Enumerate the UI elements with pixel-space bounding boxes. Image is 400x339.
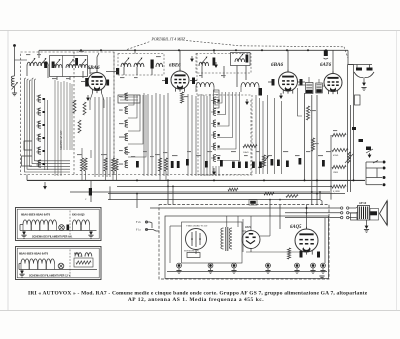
resistor R18 on bus [228, 188, 238, 191]
svg-text:C: C [85, 199, 87, 201]
tube V7 6AQ5 [295, 229, 318, 252]
capacitor C9 at V2 right [192, 78, 195, 85]
wire bus 2 [117, 185, 330, 187]
extra capacitors mid band [136, 161, 139, 168]
wire terminal drops [365, 162, 367, 185]
ground mid arrow [213, 168, 215, 174]
resistor R5 [158, 158, 161, 171]
field coil box speaker [351, 213, 358, 220]
capacitor C19 [232, 162, 235, 169]
filament wiring 12V [19, 269, 97, 271]
resistor R17 on line [286, 195, 298, 198]
pilot lamp LP2 [58, 263, 64, 269]
wire bundle V1 to oscillator [94, 97, 96, 177]
dashed divider IF1 [196, 54, 198, 96]
small rect below switch [355, 95, 361, 105]
capacitor C16 phono [367, 68, 373, 71]
wire tone network left rail [330, 135, 332, 186]
wire rail drop right to switch [347, 50, 349, 64]
resistor R13 tone [332, 148, 348, 151]
svg-text:6X5: 6X5 [245, 225, 251, 229]
svg-text:6AT6: 6AT6 [320, 63, 332, 68]
dashed divider filament box 12V [69, 250, 71, 277]
pilot lamp LP1 [59, 225, 65, 231]
page border top [0, 30, 400, 32]
wire bundle under V1 [54, 80, 56, 176]
wire oscillator column tails [212, 166, 214, 176]
capacitor C3 [52, 62, 55, 69]
capacitor C8 at V2 [165, 78, 168, 85]
svg-text:6BA6: 6BA6 [271, 62, 284, 68]
potentiometer R20 tone [348, 152, 351, 163]
page border left [7, 31, 9, 311]
power transformer T1 [225, 227, 227, 251]
tube V2 6BE6 [171, 71, 189, 89]
wire vertical links to power box [109, 186, 111, 199]
resistor R19 on bus [264, 192, 274, 195]
IF1 winding rect [214, 90, 220, 108]
capacitor C15 phono [356, 68, 362, 71]
resistor R4b [115, 159, 118, 171]
wire speaker line 1 [108, 199, 320, 201]
ground symbols filament 6V [23, 231, 25, 235]
wire switch feed [348, 64, 373, 66]
dropping resistor box 12V [74, 258, 93, 267]
capacitor C24 [286, 161, 289, 168]
oscillator unit dashed box [198, 95, 252, 175]
resistor R3 [104, 158, 107, 171]
svg-text:6X5 6AQ5: 6X5 6AQ5 [72, 213, 85, 217]
resistor R1 [80, 158, 83, 171]
svg-text:1MΩ: 1MΩ [333, 172, 338, 174]
capacitor C30 output [317, 252, 320, 258]
padder box [118, 95, 140, 103]
IF1 capacitor C10 [213, 58, 216, 66]
power unit box GA7 dashed [159, 205, 329, 279]
resistor R22 in AF box [78, 120, 81, 133]
IF3 winding A [306, 83, 314, 94]
wire transformer top link [226, 216, 228, 227]
ground arrow under IF1 [246, 99, 248, 104]
wire bus 3 [70, 191, 330, 193]
tube V3 6BA6 [279, 72, 298, 91]
tube V1 6BA6 [88, 73, 106, 91]
ground below antenna [14, 92, 16, 93]
electrolytic capacitors row [177, 263, 182, 268]
staircase wiring IF stage [217, 92, 222, 103]
switch coil column L22-L27 [213, 97, 216, 104]
resistor R10 [306, 106, 309, 120]
capacitor C27 tone [359, 139, 364, 142]
coil L6 with trimmer [79, 64, 89, 68]
svg-text:6BA6: 6BA6 [88, 65, 101, 71]
wire AF box bottom link [26, 175, 28, 181]
ground symbols filament 12V [21, 270, 23, 274]
resistor R21 in AF box [73, 100, 76, 113]
svg-text:F 2a: F 2a [136, 221, 141, 224]
tube V6 6X5 rectifier [242, 231, 260, 249]
capacitor C17 [171, 161, 174, 168]
filament heater coils 6V [23, 220, 31, 225]
dashed divider inside AF box [73, 52, 75, 175]
wire speaker line 3 [285, 212, 341, 214]
oscillator transformer box [118, 54, 164, 76]
fuse battery input [187, 253, 200, 258]
capacitor C13 at V3 right [300, 79, 303, 86]
value labels input stage [26, 54, 30, 55]
wire speaker line 2 [150, 207, 341, 209]
svg-text:50kΩ: 50kΩ [243, 151, 249, 154]
capacitor C5 at V1 grid [85, 78, 88, 87]
IF1 secondary coil [235, 59, 245, 62]
output transformer T2 speaker [358, 206, 370, 221]
value labels IF1 [199, 75, 203, 76]
wire V3 top cap to rail [287, 50, 289, 72]
ground arrow below rail mid [215, 62, 217, 67]
plug contacts speaker connector [341, 207, 343, 209]
capacitor C18 [177, 161, 180, 168]
IF1 primary coil [199, 62, 209, 66]
wires V1 pins fanout [90, 93, 93, 110]
oscillator coil L8 [134, 63, 144, 67]
capacitor C7 padder [151, 60, 154, 69]
dashed divider filament box 6V [69, 211, 71, 238]
wire V4 top cap [332, 50, 334, 73]
fuse on supply line [249, 200, 257, 206]
capacitor C20 [238, 162, 241, 169]
capacitor C26 on drop [90, 180, 92, 202]
switch S2 fono [366, 147, 371, 151]
svg-text:6BA6 6BE6 6BA6 6AT6: 6BA6 6BE6 6BA6 6AT6 [21, 213, 51, 217]
svg-text:AP 12: AP 12 [359, 201, 367, 205]
wire bundle under V2 left [143, 93, 145, 176]
resistor R23 in AF box [83, 102, 86, 115]
power unit inner solid box [165, 216, 329, 279]
filament diagram box 12V outer [16, 247, 102, 280]
capacitor C28 output [300, 251, 303, 258]
coil L4 inside box [53, 64, 63, 68]
wire main ground bus [27, 179, 365, 181]
oscillator coil bank column L16-L21 [125, 93, 128, 100]
svg-text:0,5MΩ: 0,5MΩ [333, 191, 340, 193]
svg-text:GRUPPO AF GS7: GRUPPO AF GS7 [60, 130, 63, 150]
tuning coil L3 with trimmer [38, 62, 48, 66]
filament wiring 6V [20, 230, 97, 232]
filament diagram box 6V outer [16, 208, 102, 241]
wires oscillator box [123, 67, 125, 75]
wire rail drop left [38, 50, 40, 58]
coils 12V right [75, 253, 82, 257]
ground arrow below V3 [280, 93, 282, 98]
switch wiper terminal [373, 161, 378, 164]
wire bundle under V3 [255, 95, 257, 174]
svg-text:IRI « AUTOVOX » - Mod. RA7 - C: IRI « AUTOVOX » - Mod. RA7 - Comune medi… [28, 291, 368, 297]
wire stubs to mid resistors [81, 171, 83, 180]
wire V1 grid cap to rail [97, 53, 99, 73]
wire coil bank tails [44, 98, 46, 170]
coil bank column L10-L15 [38, 95, 41, 102]
resistor R6 [164, 158, 167, 171]
resistor R4 [111, 158, 114, 171]
wire V2 top cap to rail [179, 50, 181, 71]
wire antenna into AF box [15, 59, 28, 61]
wires input stage [26, 66, 28, 76]
svg-text:6BA6 6BE6 6BA6 6AT6: 6BA6 6BE6 6BA6 6AT6 [19, 252, 49, 256]
ground arrow below V1 [87, 95, 89, 100]
filament heater coils 12V [21, 259, 29, 264]
IF1 hump coil right [241, 83, 259, 88]
wire power box bottom bus [167, 271, 327, 273]
IF3 winding B [316, 83, 323, 93]
capacitor C21 [245, 162, 248, 169]
oscillator coil L7 [121, 63, 131, 67]
speaker magnet [370, 211, 378, 215]
antenna coil L1 [11, 76, 14, 86]
dashed enclosure gruppo AF GS7 [21, 52, 115, 175]
capacitor C12 at V3 [272, 79, 275, 86]
IF1 capacitor C11 [246, 55, 249, 63]
wire bus 4 [108, 193, 345, 195]
svg-text:6AQ5: 6AQ5 [290, 225, 302, 230]
ground below switch S1 [363, 78, 365, 81]
resistor R16 output stage [287, 248, 290, 259]
capacitor C31 small [352, 127, 356, 130]
svg-text:F 1a: F 1a [136, 229, 141, 232]
wires power box internal [242, 230, 246, 232]
coil box aerial stage [50, 56, 88, 77]
wire speaker line 4 [285, 217, 341, 219]
wires IF3 [298, 84, 306, 86]
terminal block output [366, 161, 382, 163]
wires IF1 [201, 66, 203, 78]
page border bottom [0, 310, 400, 312]
IF transformer T-IF1 box [196, 54, 251, 74]
speaker frame [370, 209, 379, 221]
resistor R9 detector [243, 144, 257, 147]
resistor R15 tone [332, 185, 346, 188]
junction dots on buses [136, 179, 138, 181]
svg-text:47kΩ: 47kΩ [333, 155, 338, 157]
value labels oscillator [120, 77, 124, 78]
staircase wiring oscillator [128, 95, 134, 105]
extra value labels mid band [124, 152, 130, 153]
IF1 hump coil left [196, 83, 214, 88]
coil L5 inside box [66, 64, 76, 68]
page border right [396, 31, 398, 311]
capacitor C14 on rail [324, 51, 328, 57]
ground arrow below rail left [191, 56, 193, 61]
dashed enclosure IF section [113, 52, 115, 175]
capacitor C4 [75, 58, 78, 66]
tuning coil L2 with trimmer [27, 62, 37, 66]
speaker cone [380, 201, 388, 225]
wire phono drop [353, 65, 355, 181]
wire verticals under V4 [304, 93, 306, 180]
capacitor C22 [252, 162, 255, 169]
vibrator inner box [182, 222, 243, 263]
oscillator coil solid box [231, 53, 251, 66]
wire top B+ rail [39, 49, 348, 51]
resistor R11 [311, 138, 314, 151]
svg-text:SCHEMA DEI FILAMENTI PER 6: SCHEMA DEI FILAMENTI PER 6 V. [32, 235, 73, 238]
ground speaker [366, 220, 368, 224]
capacitor C25 [299, 158, 302, 165]
tube V4 6AT6 [324, 74, 342, 92]
resistor R7 under V2 [180, 92, 183, 103]
volume potentiometer R8 [262, 155, 265, 167]
wire verticals far right [347, 130, 349, 192]
wires speaker connector hooks [356, 207, 358, 209]
switch S1 phono wipers [354, 72, 364, 78]
svg-text:VIBRATORE W 350: VIBRATORE W 350 [186, 225, 208, 228]
capacitor C29 at V3 cathode [259, 88, 263, 96]
svg-text:SCHEMA DEI FILAMENTI PER 1: SCHEMA DEI FILAMENTI PER 12 V. [29, 274, 71, 277]
wire bundle band switch verticals left [25, 78, 71, 172]
resistor R14 tone [332, 165, 346, 168]
svg-text:6BE6: 6BE6 [169, 64, 181, 69]
svg-text:TENSIONE 12V: TENSIONE 12V [184, 251, 199, 253]
resistor R2 [84, 158, 87, 171]
ground hatch below power box [319, 275, 324, 277]
wire V3 right corner [298, 88, 303, 116]
junction dots on lower lines [136, 193, 138, 195]
coil L9 [156, 63, 163, 67]
antenna trimmer C1 [12, 83, 18, 90]
svg-text:AP 12, antenna AS 1. Media fre: AP 12, antenna AS 1. Media frequenza a 4… [128, 297, 264, 303]
capacitor C6 screen [106, 80, 109, 86]
band switch compartment corners [24, 141, 32, 150]
junction dots on rail [80, 49, 82, 51]
wire bundle under V2 right [187, 94, 189, 176]
capacitor C23 [259, 162, 262, 169]
capacitor C2 [44, 62, 47, 69]
antenna terminal [13, 44, 16, 47]
ground arrow on bus [44, 182, 46, 189]
svg-text:PORTABIL JT 4 MHZ: PORTABIL JT 4 MHZ [151, 38, 187, 42]
resistor R12 tone [332, 133, 346, 136]
vibrator V5 [186, 229, 207, 250]
